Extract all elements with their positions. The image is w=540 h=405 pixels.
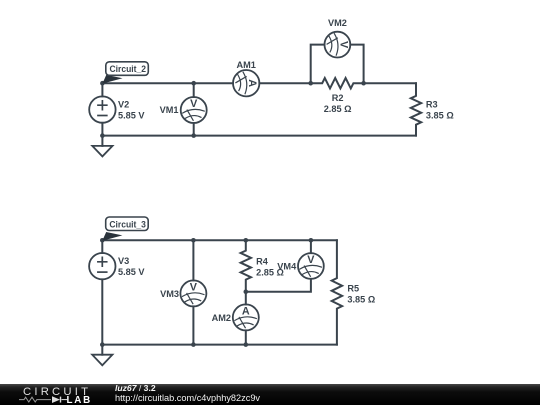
CircuitLab logo resistor+diode glyph — [19, 397, 67, 403]
wire VM2 left branch — [311, 45, 325, 84]
voltmeter VM1 — [181, 97, 207, 123]
resistor R4 — [241, 240, 251, 291]
svg-text:V3: V3 — [118, 256, 129, 266]
svg-text:AM1: AM1 — [236, 60, 255, 70]
wire V3 bottom lead — [101, 279, 103, 344]
wire V2 top lead — [101, 83, 103, 96]
resistor R5 — [332, 240, 342, 344]
svg-text:R2: R2 — [332, 93, 344, 103]
svg-text:VM1: VM1 — [160, 105, 179, 115]
callout Circuit_2 — [102, 62, 148, 84]
ammeter AM2 — [233, 304, 259, 330]
voltage source V3 — [89, 253, 115, 279]
svg-text:V: V — [190, 98, 198, 110]
wire VM1 bottom lead — [193, 123, 195, 136]
voltmeter VM4 — [298, 253, 324, 279]
node R4-AM2-VM4 junction — [244, 289, 249, 294]
voltmeter VM2 — [325, 32, 351, 58]
svg-text:Circuit_2: Circuit_2 — [110, 64, 147, 74]
wire bottom rail — [102, 135, 416, 137]
wire V2 bottom lead — [101, 123, 103, 136]
wire top rail — [102, 239, 337, 241]
svg-text:LAB: LAB — [67, 395, 93, 405]
wire VM3 bottom lead — [192, 306, 194, 344]
svg-text:V: V — [337, 41, 349, 49]
svg-text:V2: V2 — [118, 100, 129, 110]
svg-text:R5: R5 — [347, 284, 359, 294]
node VM3 bottom — [191, 342, 196, 347]
svg-text:R4: R4 — [256, 257, 269, 267]
node dots (bottom circuit) — [100, 238, 313, 347]
wire R4 bottom to AM2 — [245, 292, 247, 305]
resistor R2 — [311, 78, 364, 88]
wire ground stem — [101, 136, 103, 146]
wire bottom rail — [102, 344, 337, 346]
node bottom-left — [100, 133, 105, 138]
ammeter AM1 — [233, 70, 259, 96]
svg-text:V: V — [190, 281, 198, 293]
svg-text:R3: R3 — [426, 100, 438, 110]
svg-text:VM4: VM4 — [277, 262, 297, 272]
wire top rail: AM1 to R2 left node — [259, 82, 310, 84]
svg-text:3.85 Ω: 3.85 Ω — [347, 294, 375, 304]
wire ground stem (bottom) — [101, 345, 103, 355]
wire top rail: R2 right node to R3 corner — [364, 82, 416, 84]
svg-text:A: A — [246, 79, 258, 87]
wire VM4 top lead — [310, 240, 312, 253]
svg-text:V: V — [307, 254, 315, 266]
node dots (top circuit) — [100, 81, 366, 138]
footer bar background — [0, 384, 540, 405]
node AM2 bottom — [244, 342, 249, 347]
svg-text:luz67 / 3.2: luz67 / 3.2 — [115, 383, 156, 393]
wire VM1 top lead — [193, 83, 195, 97]
node R2 left — [308, 81, 313, 86]
svg-text:5.85 V: 5.85 V — [118, 110, 145, 120]
wire top rail left: node to AM1 — [102, 82, 233, 84]
svg-text:2.85 Ω: 2.85 Ω — [324, 104, 352, 114]
svg-text:A: A — [242, 305, 250, 317]
voltmeter VM3 — [180, 280, 206, 306]
ground (bottom circuit) — [92, 355, 112, 366]
node top-left — [100, 81, 105, 86]
svg-text:AM2: AM2 — [212, 313, 231, 323]
node VM3 top — [191, 238, 196, 243]
svg-text:VM2: VM2 — [328, 18, 347, 28]
node VM1 bottom — [191, 133, 196, 138]
voltage source V2 — [89, 96, 115, 122]
wire AM2 bottom lead — [245, 330, 247, 344]
node bottom-left (bottom ckt) — [100, 342, 105, 347]
svg-text:Circuit_3: Circuit_3 — [109, 219, 145, 229]
callout Circuit_3 — [102, 217, 148, 241]
wire VM2 right branch — [350, 45, 363, 84]
node R2 right — [361, 81, 366, 86]
node VM1 top — [191, 81, 196, 86]
svg-text:http://circuitlab.com/c4vphhy8: http://circuitlab.com/c4vphhy82zc9v — [115, 393, 260, 403]
node VM4 top — [309, 238, 314, 243]
node top-left (bottom ckt) — [100, 238, 105, 243]
resistor R3 — [411, 83, 421, 135]
svg-text:5.85 V: 5.85 V — [118, 267, 145, 277]
wire V3 top lead — [101, 240, 103, 253]
svg-text:VM3: VM3 — [160, 289, 179, 299]
wire VM3 top lead — [192, 240, 194, 280]
node R4 top — [244, 238, 249, 243]
wire VM4 bottom to junction — [246, 279, 311, 292]
svg-text:3.85 Ω: 3.85 Ω — [426, 110, 454, 120]
ground (top circuit) — [92, 146, 112, 157]
